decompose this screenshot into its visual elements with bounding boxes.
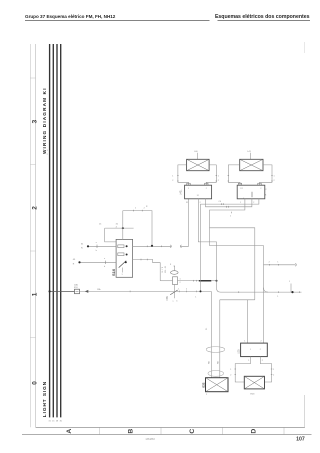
connector box1 pin notch right [205,183,208,185]
svg-text:b: b [96,250,97,252]
wire relay top to node [123,211,152,246]
tick right tap wire [196,291,198,293]
svg-text:B: B [127,429,134,434]
connector ticks top wire [133,210,135,212]
wire relay pin1 left [88,245,116,247]
svg-text:2: 2 [260,188,261,190]
svg-text:Esquemas elétricos dos compone: Esquemas elétricos dos componentes [215,14,310,20]
svg-text:Grupo 37 Esquema elétrico FM,: Grupo 37 Esquema elétrico FM, FH, NH12 [25,14,116,19]
fuse FS body [173,277,178,285]
wire curve to right run [217,288,302,292]
svg-text:107: 107 [296,436,305,442]
fuse F35 bottom pin [174,285,176,292]
wire h6 branch [220,299,255,301]
switch F35 stub below [174,291,176,298]
left ruler strip lines [29,44,31,427]
node splice right [151,245,153,247]
lamp E23 [244,376,264,389]
wire fuse to arrow [80,290,212,292]
svg-text:1: 1 [250,349,251,351]
connector tick right upper b [160,246,162,248]
svg-text:31: 31 [206,327,208,330]
svg-text:49: 49 [73,259,76,261]
grommet ellipse lower [208,371,224,377]
lamp E22 [206,378,229,392]
svg-text:31: 31 [197,195,199,197]
svg-text:a: a [96,242,97,244]
svg-text:C: C [189,429,196,434]
fuse F53 body [75,289,80,294]
svg-text:L40: L40 [194,151,198,153]
relay coil 1 node [126,245,128,247]
lamp L40 pilot stub [196,153,198,160]
node junction R2 [216,280,218,282]
wire relay pin3 left [105,228,116,242]
bus wire 3 [56,44,58,417]
svg-text:1: 1 [240,202,241,204]
node relay top junction [122,227,124,229]
wire bus tap [50,290,75,292]
end tick right run [298,291,300,293]
connector box2 [237,185,265,199]
ruler tick row 1/0 [30,337,35,339]
svg-text:BL-R: BL-R [165,266,167,273]
connector tick right run a [238,291,240,293]
svg-text:a: a [173,301,174,303]
node harness splice 1 [87,245,89,247]
svg-text:12: 12 [241,188,243,190]
svg-text:2: 2 [144,208,145,210]
wire box1 pin p2 route [198,199,216,288]
wire upper feed [105,227,134,229]
svg-text:31: 31 [186,202,188,204]
svg-text:2: 2 [230,375,231,377]
svg-text:1: 1 [47,150,49,152]
wire down to lamp E22 right [219,300,221,378]
ticks L41 left loop [228,175,230,177]
svg-text:F53: F53 [74,287,78,289]
right border top segment [304,42,306,53]
bus wire 2 [52,44,54,417]
wire box2 pin q2 to box1 pin p3 [206,199,252,207]
fuse FS oval [171,271,179,275]
bus wire 4 [60,44,62,417]
ticks left loop [177,175,179,177]
svg-text:2: 2 [218,180,219,182]
relay coil 1 [118,245,124,248]
svg-text:1: 1 [273,369,274,371]
svg-text:30: 30 [60,421,63,423]
fuse FS stub up [173,266,175,271]
svg-text:15A: 15A [97,288,101,291]
svg-text:1: 1 [218,176,219,178]
svg-text:N: N [81,248,83,250]
svg-text:SB: SB [218,361,220,364]
wire relay pin2 left [80,261,117,263]
ticks LE5 left loop [234,368,236,370]
svg-text:WIRING DIAGRAM KI: WIRING DIAGRAM KI [42,87,47,154]
node bus tap [49,290,51,292]
lamp L41 [240,159,263,170]
svg-text:E23: E23 [251,393,256,395]
arrow mark [85,290,89,293]
svg-text:R: R [73,264,75,266]
relay coil 2 node [126,254,128,256]
svg-text:1: 1 [230,216,231,218]
bottom strip divider B|C [160,427,162,434]
svg-text:3: 3 [32,119,39,123]
svg-text:1: 1 [277,296,278,298]
svg-text:LE5: LE5 [238,349,241,354]
connector box2 internal bar [251,192,253,197]
connector tick bar a [192,280,194,282]
wire box2 pin q1 route [210,199,245,246]
lamp L40 [187,159,210,170]
connector tick ground a [268,264,270,266]
node harness splice 2 [78,261,80,263]
tick mid tap wire [129,291,131,293]
svg-text:S10: S10 [111,268,116,276]
svg-text:E22: E22 [201,382,205,387]
wire to fuse FS [160,280,172,282]
svg-text:10A: 10A [74,283,78,286]
header underline [25,20,210,22]
node crossing [200,290,202,292]
wire box2 pin q3 route [201,199,259,292]
ruler tick row 3/above [30,77,35,79]
svg-text:2: 2 [206,394,207,396]
connector tick on pin2 wire [104,261,106,264]
svg-text:58: 58 [56,421,59,423]
wire h4 upper [210,228,255,300]
svg-text:F35: F35 [166,296,169,301]
grommet ellipse upper [206,347,225,353]
wire h4b lower [210,246,264,344]
wire ground branch [264,264,296,266]
bottom strip divider C|D [222,427,224,434]
svg-text:2: 2 [186,288,187,290]
bottom strip upper line [36,426,305,428]
connector box1 [185,185,212,199]
svg-text:2: 2 [200,202,201,204]
inline connector tick h1 [220,203,222,205]
connector tick lower a [140,259,142,261]
relay switch node [125,261,127,263]
inline connector end curl [294,263,297,266]
wire relay right lower [133,260,161,281]
inline connector half right [180,245,183,248]
svg-text:1: 1 [135,208,136,210]
svg-text:2: 2 [206,188,207,190]
ruler tick row 3/2 [30,164,35,166]
svg-text:1: 1 [172,176,173,178]
svg-text:LIGHT SIGN: LIGHT SIGN [42,381,47,417]
lamp L40 right loop [206,165,216,185]
stub above splice [290,284,292,293]
node splice right run [291,291,293,293]
svg-text:0: 0 [32,381,39,385]
svg-text:31: 31 [81,244,84,246]
connector tick on pin1 wire [96,245,98,248]
svg-text:1: 1 [248,360,249,362]
wire connector to lampbox1 pinA [180,199,188,247]
bus wire 1 [49,44,51,417]
wire LE5 right loop to lamp [260,357,271,382]
ticks LE5 right loop [271,368,273,370]
svg-text:1: 1 [188,188,189,190]
wire down to LE5 left pin [246,300,248,343]
connector tick bar b [195,280,197,282]
svg-text:1: 1 [289,281,290,283]
svg-text:1: 1 [277,261,278,263]
wire bar to junction [211,280,216,282]
connector tick right upper a [146,246,148,248]
svg-text:C4: C4 [219,201,221,203]
svg-text:2: 2 [273,375,274,377]
svg-text:1: 1 [180,279,181,281]
connector box2 pin notch right [258,183,261,185]
relay S10 body [116,239,133,277]
svg-text:a: a [243,198,244,200]
lamp L41 pilot stub [250,153,252,160]
svg-text:2: 2 [261,341,262,343]
bottom strip divider D|end [283,427,285,434]
wire relay top pin [122,211,124,240]
svg-text:5: 5 [122,274,123,276]
svg-text:A: A [66,429,73,434]
svg-text:0.75: 0.75 [162,266,164,272]
svg-text:2: 2 [274,180,275,182]
lamp L41 right loop [260,165,273,185]
svg-text:F: F [170,264,172,266]
ruler tick row 2/1 [30,250,35,252]
connector tick right run b [277,291,279,293]
connector box LE5 [241,343,268,357]
svg-text:D: D [250,429,257,434]
svg-text:2: 2 [262,360,263,362]
svg-text:1: 1 [178,288,179,290]
svg-text:C: C [265,189,267,191]
svg-text:L41: L41 [247,151,251,153]
svg-text:b: b [177,301,178,303]
arc merge at right run [264,288,269,293]
svg-text:1: 1 [244,341,245,343]
svg-text:15: 15 [52,421,55,423]
svg-text:1: 1 [195,297,196,299]
connector tick ground b [277,264,279,266]
inline connector half left [169,245,172,248]
relay switch pin stub [121,268,123,273]
wire LE5 left loop to lamp [235,357,250,382]
svg-text:L40L: L40L [179,189,182,195]
ticks L41 right loop [271,175,273,177]
connector box1 pin notch left [187,183,190,185]
bottom strip divider A|B [99,427,101,434]
svg-text:15: 15 [99,224,102,226]
svg-text:2: 2 [172,180,173,182]
connector tick lower b [146,259,148,261]
lamp L41 left loop [228,165,240,185]
svg-text:b: b [104,266,105,268]
ticks after switch [178,291,180,293]
svg-text:8: 8 [265,195,267,197]
svg-text:2: 2 [180,282,181,284]
bottom strip lower line [22,434,312,436]
svg-text:31: 31 [116,224,119,226]
lamp L40 left loop [178,165,189,185]
wire fuse to splice bold [178,280,199,282]
ticks right loop [216,175,218,177]
svg-text:2: 2 [260,349,261,351]
svg-text:1361883: 1361883 [145,438,155,441]
bold harness segment [199,280,212,282]
relay coil 2 [118,253,124,256]
connector box2 pin notch left [238,183,241,185]
svg-text:1: 1 [32,292,39,296]
inline connector tick h2 [226,206,228,208]
relay switch contact [119,261,127,268]
wire relay right upper [133,245,172,247]
svg-text:2: 2 [32,206,39,210]
svg-text:1: 1 [274,176,275,178]
svg-text:31: 31 [48,421,51,423]
svg-text:2: 2 [269,261,270,263]
svg-text:SB: SB [208,361,210,364]
svg-text:2: 2 [253,202,254,204]
svg-text:1: 1 [230,369,231,371]
svg-text:R: R [146,206,148,208]
switch F35 contact [170,290,178,295]
svg-text:2: 2 [47,154,49,156]
svg-text:a: a [104,258,105,260]
wire down to lamp E22 left [210,291,212,377]
right border bottom segment [304,395,306,427]
